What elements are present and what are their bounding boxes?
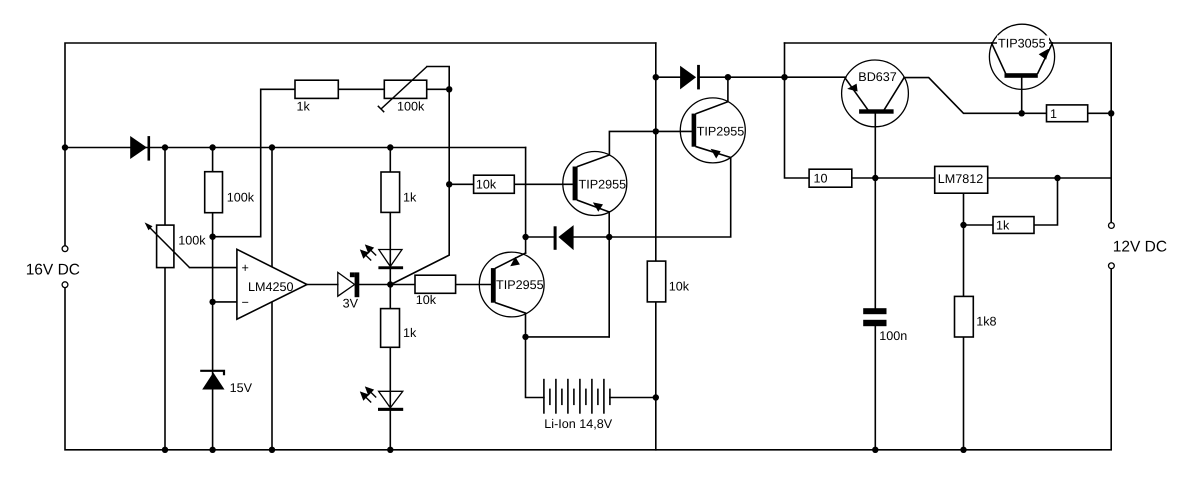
svg-text:10k: 10k <box>669 279 690 293</box>
svg-text:10: 10 <box>814 172 828 186</box>
svg-text:Li-Ion 14,8V: Li-Ion 14,8V <box>544 417 613 431</box>
svg-text:TIP2955: TIP2955 <box>579 177 627 191</box>
svg-text:1: 1 <box>1050 107 1057 121</box>
svg-text:16V DC: 16V DC <box>26 262 80 279</box>
svg-text:100k: 100k <box>227 190 255 204</box>
svg-text:10k: 10k <box>476 178 497 192</box>
svg-text:TIP2955: TIP2955 <box>496 278 544 292</box>
svg-text:1k: 1k <box>403 191 417 205</box>
svg-text:1k: 1k <box>996 219 1010 233</box>
svg-text:1k: 1k <box>403 326 417 340</box>
svg-text:100k: 100k <box>397 100 425 114</box>
svg-text:3V: 3V <box>343 297 359 311</box>
svg-text:12V DC: 12V DC <box>1113 239 1167 256</box>
svg-text:BD637: BD637 <box>858 70 897 84</box>
svg-text:100k: 100k <box>178 234 206 248</box>
svg-text:+: + <box>242 261 249 275</box>
svg-text:LM7812: LM7812 <box>938 172 984 186</box>
svg-text:TIP2955: TIP2955 <box>697 125 745 139</box>
svg-text:10k: 10k <box>416 293 437 307</box>
svg-text:15V: 15V <box>230 381 253 395</box>
svg-text:TIP3055: TIP3055 <box>998 37 1046 51</box>
svg-text:1k: 1k <box>297 100 311 114</box>
svg-text:LM4250: LM4250 <box>248 280 294 294</box>
svg-text:100n: 100n <box>879 329 907 343</box>
svg-text:−: − <box>242 296 249 310</box>
svg-text:1k8: 1k8 <box>976 315 996 329</box>
